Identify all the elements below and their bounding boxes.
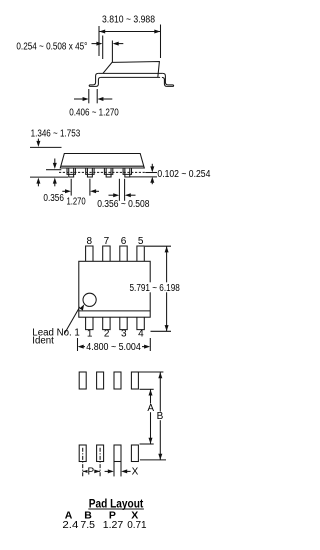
- overall width dim line with arrows: [165, 246, 169, 331]
- svg-text:3.810 ~ 3.988: 3.810 ~ 3.988: [102, 15, 155, 26]
- lead width extension lines: [119, 179, 124, 201]
- pin 6: [120, 246, 127, 261]
- pad bottom 3: [114, 445, 121, 462]
- X dim arrows: [105, 469, 131, 473]
- dim text 5.791 ~ 6.198: [128, 282, 183, 294]
- table value 1.27: [103, 520, 124, 531]
- pad top 4: [131, 372, 138, 389]
- svg-text:0.406 ~ 1.270: 0.406 ~ 1.270: [69, 108, 119, 119]
- A bottom extension line: [140, 443, 154, 445]
- table header P: [109, 510, 116, 522]
- pin number 8: [87, 236, 93, 247]
- pad1 center line: [82, 448, 84, 477]
- X extension lines: [114, 462, 121, 477]
- pad top 1: [79, 372, 86, 389]
- A top extension line: [140, 388, 154, 390]
- pin number 4: [138, 329, 144, 340]
- label X: [132, 466, 139, 477]
- svg-text:A: A: [147, 403, 154, 414]
- table header X: [131, 510, 138, 522]
- standoff dim arrows: [150, 164, 154, 184]
- B top extension line: [138, 371, 163, 373]
- A dim line with arrows: [149, 389, 153, 444]
- svg-text:Ident: Ident: [32, 336, 54, 347]
- svg-text:0.356: 0.356: [43, 193, 64, 204]
- dim text 0.406 ~ 1.270: [69, 108, 119, 119]
- height top extension line: [30, 146, 62, 148]
- B bottom extension line: [140, 459, 166, 461]
- svg-text:7: 7: [104, 236, 110, 247]
- height dim bottom arrow: [36, 178, 40, 187]
- pin 1: [86, 317, 93, 329]
- package body (front view): [60, 154, 144, 169]
- label P: [87, 466, 94, 477]
- lead width dim arrows: [109, 193, 136, 197]
- dim text 1.270: [67, 197, 87, 208]
- svg-text:2.4: 2.4: [62, 520, 78, 531]
- pin number 1: [87, 329, 93, 340]
- pin number 2: [104, 329, 110, 340]
- extension line chamfer right: [111, 41, 113, 63]
- dim text 0.254 ~ 0.508 x 45deg: [16, 42, 87, 53]
- svg-text:X: X: [132, 466, 139, 477]
- overall width top extension line: [145, 245, 171, 247]
- pin 7: [103, 246, 110, 261]
- leader line with arrow: [65, 304, 85, 333]
- dim text 3.810 ~ 3.988: [102, 15, 155, 26]
- svg-text:8: 8: [87, 236, 93, 247]
- extension line right (body width): [160, 25, 162, 59]
- svg-text:1: 1: [87, 329, 93, 340]
- pin number 3: [121, 329, 127, 340]
- chamfer dim arrows: [92, 42, 124, 46]
- seating plane dashed line: [59, 171, 145, 173]
- extension line chamfer left: [102, 36, 104, 60]
- dim text 0.102 ~ 0.254: [157, 169, 210, 180]
- body parting band bottom line: [101, 76, 160, 78]
- pin 3: [120, 317, 127, 329]
- svg-text:0.356 ~ 0.508: 0.356 ~ 0.508: [97, 199, 150, 210]
- pin 8: [86, 246, 93, 261]
- text Ident: [32, 336, 54, 347]
- pin 4: [137, 317, 144, 329]
- svg-text:Pad Layout: Pad Layout: [89, 496, 144, 510]
- overall width bottom extension line: [151, 330, 172, 332]
- pin 5: [137, 246, 144, 261]
- pitch extension lines: [71, 179, 90, 196]
- svg-text:7.5: 7.5: [80, 520, 95, 531]
- pin number 5: [138, 236, 144, 247]
- dim text 4.800 ~ 5.004: [86, 342, 141, 353]
- B dim line with arrows: [158, 372, 162, 460]
- svg-text:5.791 ~ 6.198: 5.791 ~ 6.198: [130, 283, 181, 294]
- svg-text:3: 3: [121, 329, 127, 340]
- height dim top arrow: [36, 139, 40, 147]
- svg-text:0.102 ~ 0.254: 0.102 ~ 0.254: [157, 169, 210, 180]
- svg-text:4: 4: [138, 329, 144, 340]
- 0.356 dim bottom arrow: [53, 178, 57, 187]
- label A: [147, 403, 155, 414]
- pitch dim arrows: [62, 189, 99, 193]
- 0.356 dim top arrow: [53, 159, 57, 169]
- lead 4 front: [123, 168, 131, 177]
- package body (top view): [79, 261, 150, 317]
- P dim line with arrows: [83, 469, 100, 473]
- svg-text:5: 5: [138, 236, 144, 247]
- body length dim line and arrows: [78, 345, 150, 349]
- svg-text:4.800 ~ 5.004: 4.800 ~ 5.004: [86, 342, 141, 353]
- svg-text:1.346 ~ 1.753: 1.346 ~ 1.753: [31, 129, 81, 140]
- svg-text:6: 6: [121, 236, 127, 247]
- svg-text:0.254 ~ 0.508 x 45°: 0.254 ~ 0.508 x 45°: [16, 42, 87, 53]
- standoff tick upper: [145, 172, 157, 174]
- extension line left (body width): [98, 26, 100, 56]
- body inner line: [61, 165, 144, 167]
- right lead (gull wing): [162, 73, 174, 86]
- left lead (gull wing): [89, 73, 101, 86]
- table title Pad Layout: [88, 496, 144, 510]
- foot length extension lines: [89, 89, 97, 103]
- dim text 0.356 ~ 0.508: [97, 199, 150, 210]
- svg-text:P: P: [87, 466, 94, 477]
- pin number 7: [104, 236, 110, 247]
- lead 1 front: [67, 168, 75, 177]
- svg-text:2: 2: [104, 329, 110, 340]
- pad bottom 1: [79, 445, 86, 462]
- pad top 2: [97, 372, 104, 389]
- table header A: [65, 510, 73, 522]
- pin number 6: [121, 236, 127, 247]
- seating plane extension line left: [30, 176, 68, 178]
- lead 3 front: [104, 168, 112, 177]
- standoff tick lower / seating right: [130, 176, 157, 178]
- pad top 3: [114, 372, 121, 389]
- svg-text:1.27: 1.27: [103, 520, 124, 531]
- pad bottom 4: [131, 445, 138, 462]
- body length extension lines: [78, 338, 151, 351]
- foot length dim arrows: [74, 97, 112, 101]
- text Lead No. 1: [32, 328, 80, 339]
- pad bottom 2: [97, 445, 104, 462]
- body inner line near pin1 edge: [79, 310, 150, 312]
- table value 0.71: [127, 520, 147, 531]
- table header B: [84, 510, 92, 522]
- dim line 3.810-3.988 with arrows: [99, 30, 161, 34]
- table value 7.5: [80, 520, 95, 531]
- dim text 1.346 ~ 1.753: [31, 129, 81, 140]
- 0.356 mid extension line: [46, 169, 61, 171]
- pin 2: [103, 317, 110, 329]
- lead no.1 ident circle: [83, 293, 96, 306]
- dim text 0.356: [43, 193, 64, 204]
- lead 2 front: [86, 168, 94, 177]
- table value 2.4: [62, 520, 78, 531]
- svg-text:1.270: 1.270: [67, 197, 87, 208]
- package body (side view): [103, 62, 159, 78]
- label B: [157, 411, 165, 422]
- pad2 center line: [99, 448, 101, 477]
- svg-text:B: B: [157, 411, 164, 422]
- svg-text:0.71: 0.71: [127, 520, 147, 531]
- body parting band top line: [98, 72, 163, 74]
